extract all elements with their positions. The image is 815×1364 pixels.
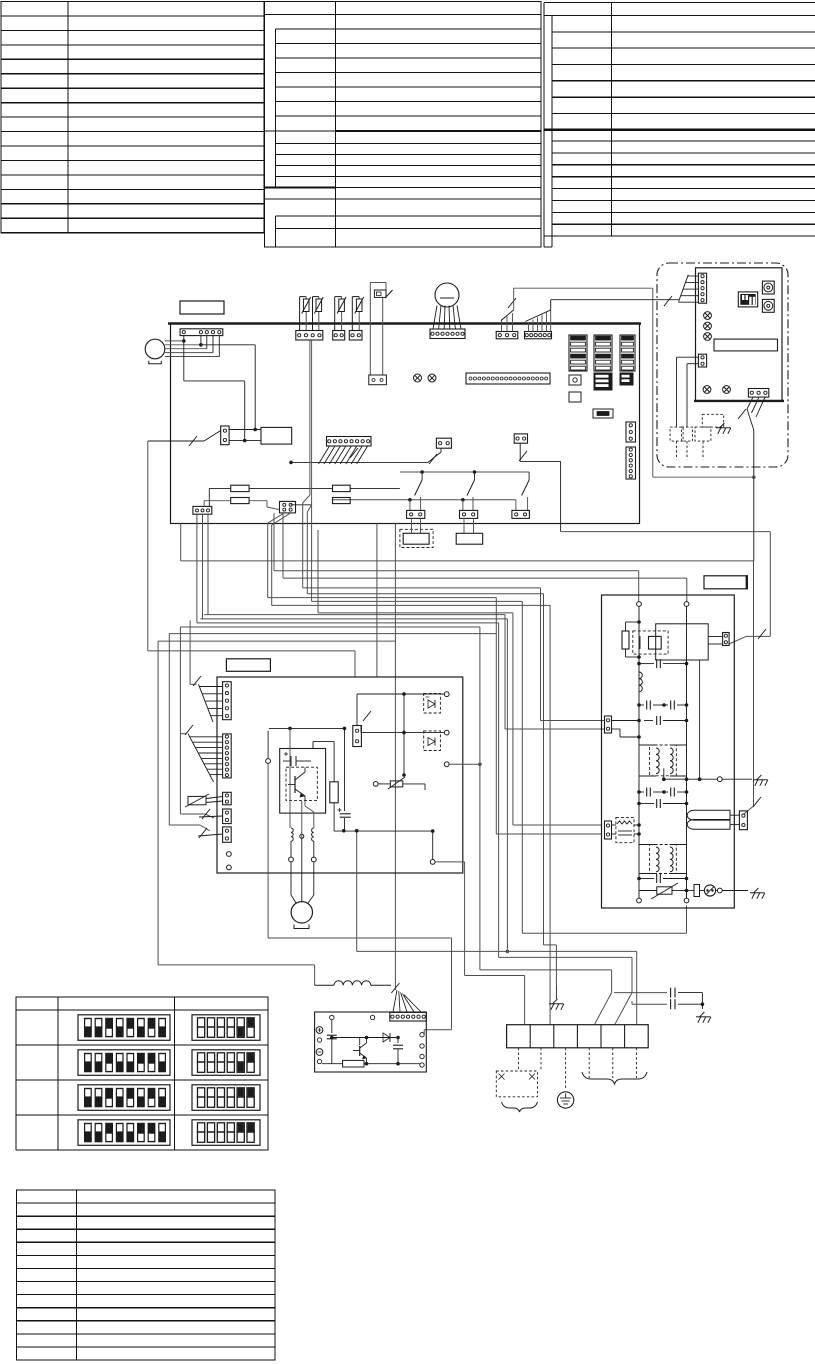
wire bus H7 (to filter bottom circle) [311,505,313,602]
wire K6 risers trunk [501,320,503,332]
thermistor TH4 [351,297,353,331]
LED D1 [414,374,422,382]
connector K19 [748,389,768,398]
connector K23 [223,809,232,824]
terminal block TB2 [507,1025,649,1048]
connector K24 [223,827,232,842]
ground G5 [700,1012,705,1017]
jumper cable component [370,282,386,284]
rail wire A [400,471,529,473]
fuse F5 [687,890,694,892]
bottom legend table grid [17,1190,276,1360]
terminal block TB1 [193,506,212,514]
display window [714,339,778,351]
PFC cap C17 [397,1038,399,1044]
resistor R2 [313,740,334,742]
wire cable from K19 [747,397,753,409]
pin strip K20 [223,682,232,720]
DIP switch block SW4B [192,1085,260,1111]
connector K26 [723,633,730,646]
wire fan K20 rungs [199,686,222,688]
component U8 [593,409,613,418]
IC block U7 [569,392,581,402]
wire fan K20 trunk [189,620,191,684]
compressor motor M1 [291,902,312,923]
wire bus H3 (to filter rail L) [273,513,275,571]
reactor L4 [334,981,371,986]
table B top-middle legend grid [265,2,542,248]
wire K1 pin2 path [201,344,255,346]
filter PCB label box [704,576,747,589]
wire left to switch [148,440,204,442]
transformer T2 [650,845,677,874]
switch S3 [528,472,530,480]
dashed box P4 [702,414,723,427]
current sensor CT1 [291,828,293,841]
varistor Z2 [639,890,657,892]
inverter PCB outline [217,677,463,873]
potentiometer VR2 [762,299,774,312]
wire F3 to rail A [350,487,400,489]
ground G3 [754,888,759,893]
wire bus H4 (to filter rail N) [282,513,284,578]
IC block U4 [569,375,581,385]
wire bus H2 (to filter reactor connector) [180,524,182,561]
LED D3 [704,312,712,320]
capacitor C8 [639,663,654,665]
connector K13 [514,434,527,443]
filter rail L [637,602,642,607]
wire ladder to K30 [393,990,397,1012]
inverter PCB label box [226,659,270,672]
DIP switch block SW5B [192,1120,260,1146]
connector K18 (display) [698,273,706,303]
label box PCB name [180,301,224,314]
IC block U2 [594,335,612,371]
switch blade S0 [204,431,221,442]
capacitor C14 [639,803,654,805]
dashed plug P2 [682,427,693,441]
connector K29 [739,811,747,830]
wire PCB drop V1 [376,524,378,678]
wire photocoupler rail B [361,732,444,734]
wire inverter left rail to PFC [267,764,269,939]
wire display ladder rungs [688,275,699,277]
wire inverter mid drop to terminal seg5 [356,831,358,952]
wire fan motor to CN K1 [165,340,184,342]
PFC box outline [315,1012,427,1072]
display PCB outline [696,268,783,401]
wire J4 legs [268,513,285,523]
protective earth symbol [557,1092,573,1108]
connector K3 [333,331,345,341]
connector K30 [390,1012,427,1021]
dashed plug P1 [670,427,683,441]
wire F1 to F3 [249,487,332,489]
IC block U3 [620,335,635,371]
ground display [720,423,725,428]
DIP switch table grid [16,997,268,1150]
fuse F1 [231,485,249,491]
connector K4 [349,331,362,341]
table A top-left legend grid [1,2,264,233]
wire bus H1 PCB to filter relay connector [561,531,771,533]
DIP switch block SW4A [78,1085,170,1111]
main control PCB outline [171,324,640,524]
switch S1 [420,470,424,474]
wire K1 pin1 path [183,341,185,381]
DIP switch block SW3A [78,1050,170,1076]
thermistor TH3 [334,297,336,331]
fuse F2 [231,498,249,504]
capacitor C6 [283,760,291,762]
relay R1 [221,426,229,445]
junction block J4 [280,501,296,513]
IGBT Q1 dashed [286,767,317,800]
IC block U1 [569,335,587,371]
current transformer CT3 [700,890,705,892]
wire photocoupler rail A [357,693,444,695]
fuse F4 [333,498,351,504]
DIP switch block SW5A [78,1120,170,1146]
PFC cap C16 [331,1020,333,1033]
current sensor CT2 [312,828,314,841]
LED D6 [703,386,711,394]
test point TP1 [227,852,232,857]
connector K28 [605,821,612,839]
wire photocoupler common [403,694,405,775]
wire bus H5 (to filter connector K27 pin1) [302,503,304,588]
switch S2 [473,470,477,474]
wires to compressor [290,841,292,857]
connector K11 with ladder [327,437,372,447]
wire bus H14 (left loop to inverter) [147,441,149,651]
wire loop photocoupler joins bus [444,762,449,767]
connector K25 [353,726,362,747]
LED D2 [428,374,436,382]
wire ground mid [663,768,665,779]
test point TP3 [266,759,271,764]
wire display ladder trunk [679,275,689,302]
wire fan K21 trunk [180,733,186,735]
test point TP2 [227,865,232,870]
fan motor FM1 (left) [145,339,165,359]
wire K31 drop lines [677,356,699,358]
IGBT module box [280,749,326,814]
capacitor C15 [639,878,654,880]
relay RY1 resistor [626,621,640,623]
filter PCB outline [602,595,735,908]
connector K16 [460,510,478,518]
connector K7 [525,332,552,339]
capacitor C11 [612,720,640,722]
wire K13 to H1 [519,443,521,453]
IC block U6 [620,373,633,385]
connector K12 [436,438,451,448]
DIP switch block SW2A [78,1015,170,1041]
LED D4 [704,322,712,330]
wire relay frame drop [699,660,701,779]
wires K2 K3 drops [309,340,311,495]
wire bus H13 (to filter K28 pin2) [267,523,269,598]
coil component L1 [261,427,292,444]
thermistor TH5 [188,796,206,804]
wire bus left drop to K24 [169,633,496,635]
thermistor TH1 [299,297,301,331]
connector K5 (compressor) [430,329,465,339]
pin strip K21 [223,734,232,778]
display unit dash-dot enclosure [657,263,788,467]
wire K7 risers trunk [528,322,530,332]
PFC top contacts [330,1015,334,1019]
wire K6 bundle to under display box [513,288,515,310]
connector K1 (fan motor) [180,329,223,336]
rail wire B [332,499,516,501]
wire loop test circle to terminal seg1 [430,860,435,865]
PFC right contacts [420,1033,424,1037]
IC block U5 [594,373,612,390]
PFC resistor R3 [322,1063,343,1065]
fuse F3 [333,485,351,491]
filter rail N [684,602,689,607]
wire F2 to J4 [249,500,267,502]
wire bus H8 (to terminal seg2) [271,525,273,605]
PFC wire top rail [332,1037,396,1039]
capacitor C9 C10 row [639,704,644,706]
wires FM2 to K5 [433,306,437,330]
potentiometer VR1 [762,281,774,294]
connector K6 [496,332,518,339]
wire K7 bundle to display ladder [550,300,552,310]
varistor Z1 dashed [616,817,634,842]
wire inverter top rail [269,727,345,729]
capacitor C19 line [631,1001,633,1004]
wire fan K21 rungs [190,736,223,738]
ground G4 above TB2 [555,986,557,1000]
power plug dashed box [496,1071,537,1097]
wire bus H10 (to terminal seg5) [202,514,204,619]
wire bus H15 (to photocoupler loop vertical) [180,626,480,628]
photocoupler PC2 [424,731,441,751]
transformer T1 [650,745,677,776]
wire TB2 dashed drops [517,1048,519,1071]
pin strip K10 [626,447,636,479]
wire F1 to TB1 [209,487,230,489]
DIP switch SW1 [738,292,757,307]
connector K17 [512,510,530,518]
capacitor C18 line [614,992,667,994]
wire PCB drop V2 [394,524,396,991]
pin strip K9 [626,422,636,442]
capacitor C7 electrolytic [344,761,346,811]
ground G2 [757,775,762,780]
wire K12 slash left [440,448,442,452]
capacitor row C12 C13 [639,791,644,793]
wire relay to coil [229,429,261,431]
connector K22 [223,792,232,805]
LED D7 [723,386,731,394]
relay RY1 frame [656,624,709,660]
connector K2 (thermistors) [296,331,323,341]
wire bus H9 (to terminal seg4) [196,514,198,623]
connector K27 [605,716,612,733]
brace under field wiring [582,1072,647,1084]
wire bus H11 (to filter K28 pin1) [317,530,319,613]
PFC IGBT Q2 [359,1038,361,1046]
reactor L3 [687,810,730,820]
photocoupler PC1 [424,693,441,713]
capacitor C2 [456,533,483,544]
DIP switch block SW2B [192,1015,260,1041]
PFC diode D8 [383,1033,390,1042]
PFC minus terminal [316,1049,323,1056]
wire bus H6 (to ground above terminal) [307,505,311,512]
capacitor C1 in dashed box [400,529,433,547]
wire inverter bottom rail [334,830,433,832]
PFC wire mid [323,1037,332,1039]
brace under plug [502,1102,538,1112]
wire F2 to TB1 [204,500,231,502]
coil L2 [639,672,642,692]
PFC plus terminal [316,1027,323,1034]
thermistor TH6 [373,782,378,787]
relay RY1 dashed [633,631,668,654]
thermistor TH2 [312,297,314,331]
fan motor FM2 (top) [435,283,459,307]
wire cable vertical to reactor line [753,430,755,561]
wire bus H12 (to filter K27 pin2) [207,514,209,614]
wire bus left drop to PFC [158,640,395,642]
LED D5 [704,333,712,341]
DIP switch block SW3B [192,1050,260,1076]
connector K15 [407,510,425,518]
connector K8 (long pin strip) [466,373,550,384]
table C top-right legend grid [544,3,815,248]
dashed plug P3 [695,427,711,441]
connector K31 [698,354,706,367]
